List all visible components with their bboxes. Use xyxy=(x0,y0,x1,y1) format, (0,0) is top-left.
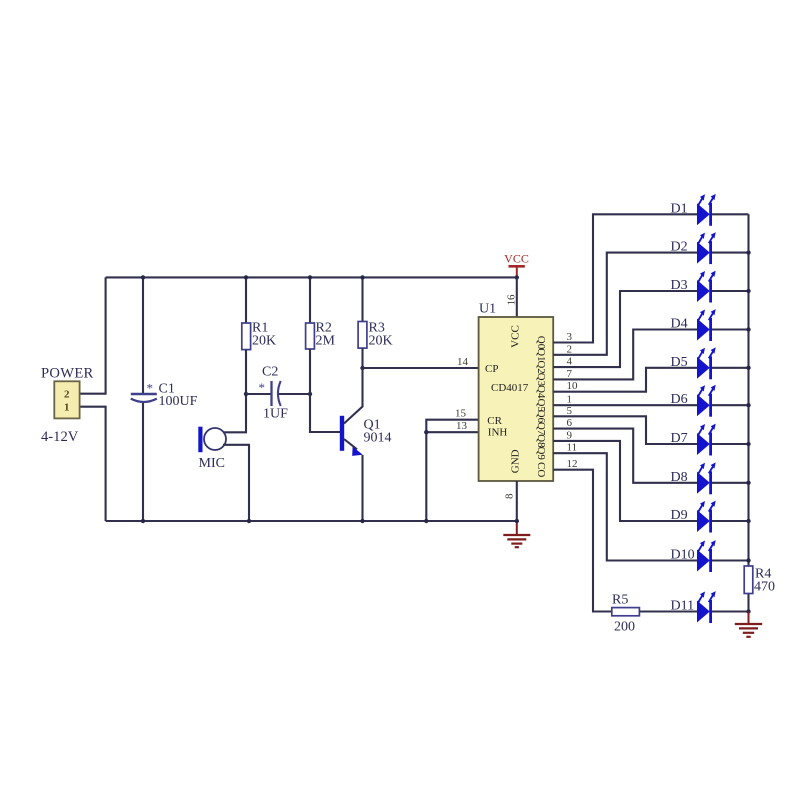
wire: emitter to ground rail xyxy=(361,455,363,521)
svg-text:D8: D8 xyxy=(671,470,688,485)
svg-text:U1: U1 xyxy=(479,302,496,317)
svg-text:D6: D6 xyxy=(671,392,688,407)
pin 3 (Q0) wire to LED D1 xyxy=(553,214,697,342)
svg-text:Q9: Q9 xyxy=(535,446,547,460)
wire: C2 right lead to R2 column xyxy=(279,393,310,395)
node: rail junction D5 xyxy=(746,366,750,370)
pin 1 (Q5) wire to LED D6 xyxy=(553,404,697,406)
svg-text:9014: 9014 xyxy=(364,431,392,446)
node: R1/C2/MIC junction xyxy=(244,392,248,396)
svg-text:12: 12 xyxy=(567,458,578,470)
svg-text:2M: 2M xyxy=(316,334,336,349)
wire: D6 cathode to rail xyxy=(712,404,749,406)
svg-text:R5: R5 xyxy=(612,593,628,608)
svg-text:D9: D9 xyxy=(671,508,688,523)
node: rail junction D7 xyxy=(746,442,750,446)
wire: LED cathode rail xyxy=(747,214,749,611)
capacitor C2 1UF xyxy=(270,381,272,406)
wire: bottom ground rail xyxy=(106,520,517,522)
LED D4 xyxy=(697,309,716,341)
svg-text:200: 200 xyxy=(614,620,635,635)
wire: INH pin 13 xyxy=(426,431,478,433)
node: CR/INH junction xyxy=(424,430,428,434)
wire: left rail upper (POWER pin2 to top rail) xyxy=(80,277,106,393)
resistor R2 2M xyxy=(306,323,315,349)
wire: R3 column from top rail xyxy=(361,277,363,321)
wire: IC pin 8 to ground rail xyxy=(516,481,518,521)
ground symbol (LED rail) xyxy=(748,612,750,625)
wire: D10 cathode to rail xyxy=(712,559,749,561)
node: R3/CP/collector junction xyxy=(360,366,364,370)
svg-text:13: 13 xyxy=(456,420,468,432)
wire: D5 cathode to rail xyxy=(712,367,749,369)
node: top rail junctions xyxy=(141,275,145,279)
IC U1 CD4017 xyxy=(479,317,554,481)
wire: D11 cathode to rail xyxy=(712,610,749,612)
wire: left rail lower (POWER pin1 to bottom rail) xyxy=(80,407,106,521)
wire: C1 column upper xyxy=(142,277,144,393)
node: bottom rail junctions xyxy=(141,519,145,523)
svg-text:470: 470 xyxy=(754,580,775,595)
svg-text:5: 5 xyxy=(567,405,573,417)
wire: CP node to IC pin 14 xyxy=(363,367,479,369)
svg-text:16: 16 xyxy=(506,294,518,306)
svg-text:D7: D7 xyxy=(671,431,688,446)
svg-text:POWER: POWER xyxy=(41,366,94,382)
svg-text:9: 9 xyxy=(567,429,573,441)
svg-text:11: 11 xyxy=(567,442,578,454)
svg-text:6: 6 xyxy=(567,417,573,429)
LED D7 xyxy=(697,424,716,456)
svg-text:2: 2 xyxy=(567,343,573,355)
LED D3 xyxy=(697,271,716,303)
node: C2/R2 junction xyxy=(308,392,312,396)
wire: D8 cathode to rail xyxy=(712,482,749,484)
wire: MIC bottom terminal to ground rail xyxy=(223,445,249,521)
connector J1 POWER xyxy=(54,381,79,418)
svg-text:GND: GND xyxy=(510,449,522,473)
pin 7 (Q3) wire to LED D4 xyxy=(553,330,697,380)
svg-text:D5: D5 xyxy=(671,355,688,370)
LED D5 xyxy=(697,347,716,379)
svg-text:20K: 20K xyxy=(252,334,276,349)
wire: C2 left lead xyxy=(246,393,272,395)
svg-text:D3: D3 xyxy=(671,278,688,293)
wire: CR/INH node to ground rail xyxy=(426,420,478,521)
LED D11 xyxy=(697,591,716,623)
transistor Q1 9014 xyxy=(340,416,344,451)
wire: C1 column lower xyxy=(142,403,144,521)
node: rail junction D6 xyxy=(746,403,750,407)
resistor R1 20K xyxy=(242,323,251,350)
node: rail junction D4 xyxy=(746,327,750,331)
svg-text:20K: 20K xyxy=(369,334,393,349)
svg-text:D11: D11 xyxy=(671,599,695,614)
svg-text:2: 2 xyxy=(64,389,70,401)
ground symbol (IC pin 8) xyxy=(516,521,518,535)
svg-text:CR: CR xyxy=(487,415,502,427)
svg-text:7: 7 xyxy=(567,368,573,380)
pin 5 (Q6) wire to LED D7 xyxy=(553,416,697,444)
microphone MIC xyxy=(198,427,202,453)
wire: top VCC rail xyxy=(106,276,517,278)
wire: D1 cathode to rail xyxy=(712,213,749,215)
wire: R2 column from top rail xyxy=(309,277,311,324)
svg-text:14: 14 xyxy=(457,356,469,368)
resistor R3 20K xyxy=(358,322,367,349)
pin 12 (CO) wire to LED D11 xyxy=(553,470,612,612)
svg-text:1UF: 1UF xyxy=(263,407,288,422)
node: rail junction D8 xyxy=(746,481,750,485)
wire: R2 bottom through C2 node to Q1 base xyxy=(310,349,340,432)
svg-text:CO: CO xyxy=(535,462,547,477)
node: rail junction D3 xyxy=(746,289,750,293)
svg-text:100UF: 100UF xyxy=(159,394,198,409)
svg-text:INH: INH xyxy=(488,427,508,439)
svg-text:8: 8 xyxy=(504,493,516,499)
capacitor C1 100UF xyxy=(131,393,157,395)
node: rail junction D11 xyxy=(746,609,750,613)
svg-text:D10: D10 xyxy=(671,548,695,563)
pin 2 (Q1) wire to LED D2 xyxy=(553,253,697,355)
svg-text:CP: CP xyxy=(485,363,498,375)
svg-text:3: 3 xyxy=(567,331,573,343)
node: VCC junction xyxy=(515,275,519,279)
svg-text:D4: D4 xyxy=(671,317,688,332)
svg-text:10: 10 xyxy=(567,380,579,392)
pin 4 (Q2) wire to LED D3 xyxy=(553,291,697,367)
svg-text:*: * xyxy=(259,380,266,395)
svg-text:1: 1 xyxy=(64,402,70,414)
svg-text:C2: C2 xyxy=(262,365,278,380)
LED D1 xyxy=(697,194,716,226)
svg-text:Q4: Q4 xyxy=(535,385,547,399)
wire: D2 cathode to rail xyxy=(712,252,749,254)
wire: IC pin 16 to VCC xyxy=(516,277,518,317)
svg-text:VCC: VCC xyxy=(510,325,522,348)
svg-text:VCC: VCC xyxy=(504,251,529,265)
svg-text:4-12V: 4-12V xyxy=(41,429,79,445)
LED D10 xyxy=(697,540,716,572)
svg-text:CD4017: CD4017 xyxy=(491,382,529,394)
node: rail junction D9 xyxy=(746,519,750,523)
resistor R5 200 xyxy=(612,608,640,616)
wire: D4 cathode to rail xyxy=(712,328,749,330)
wire: Q1 emitter xyxy=(344,439,357,449)
LED D8 xyxy=(697,462,716,494)
svg-text:D2: D2 xyxy=(671,240,688,255)
wire: R1 bottom to C2 node xyxy=(245,350,247,394)
wire: collector drop xyxy=(344,368,363,424)
pin 10 (Q4) wire to LED D5 xyxy=(553,368,697,392)
node: rail junction D2 xyxy=(746,250,750,254)
svg-text:D1: D1 xyxy=(671,201,688,216)
svg-text:15: 15 xyxy=(455,408,467,420)
resistor R4 470 xyxy=(744,566,753,594)
wire: C2 node down to MIC top terminal xyxy=(223,394,246,432)
wire: D7 cathode to rail xyxy=(712,443,749,445)
wire: D3 cathode to rail xyxy=(712,290,749,292)
pin 11 (Q9) wire to LED D10 xyxy=(553,453,697,560)
LED D2 xyxy=(697,232,716,264)
node: rail junction D10 xyxy=(746,558,750,562)
LED D6 xyxy=(697,385,716,417)
wire: D9 cathode to rail xyxy=(712,520,749,522)
wire: R3 bottom to CP node xyxy=(361,348,363,368)
wire: R1 column from top rail xyxy=(245,277,247,323)
svg-text:MIC: MIC xyxy=(199,456,225,471)
wire: R5 to LED D11 xyxy=(639,610,697,612)
LED D9 xyxy=(697,501,716,533)
svg-text:*: * xyxy=(147,381,154,396)
svg-text:4: 4 xyxy=(567,356,573,368)
pin 6 (Q7) wire to LED D8 xyxy=(553,429,697,483)
pin 9 (Q8) wire to LED D9 xyxy=(553,441,697,521)
